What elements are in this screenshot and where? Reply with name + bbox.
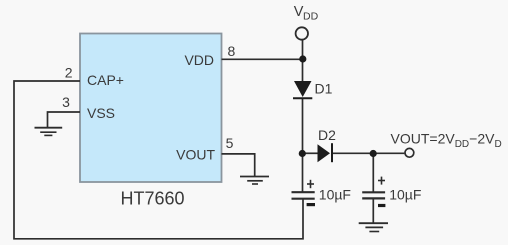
svg-text:VDD: VDD <box>184 52 214 68</box>
svg-text:VOUT: VOUT <box>176 147 215 163</box>
svg-text:8: 8 <box>228 43 236 59</box>
svg-text:3: 3 <box>62 94 70 110</box>
svg-text:2: 2 <box>65 64 73 80</box>
svg-text:VSS: VSS <box>87 105 115 121</box>
svg-text:CAP+: CAP+ <box>87 72 124 88</box>
svg-text:D1: D1 <box>315 81 333 97</box>
svg-text:D2: D2 <box>318 127 336 143</box>
svg-text:10µF: 10µF <box>319 186 351 202</box>
svg-text:10µF: 10µF <box>389 186 421 202</box>
svg-text:HT7660: HT7660 <box>120 188 184 208</box>
svg-text:DD: DD <box>303 10 319 22</box>
svg-text:5: 5 <box>226 135 234 151</box>
